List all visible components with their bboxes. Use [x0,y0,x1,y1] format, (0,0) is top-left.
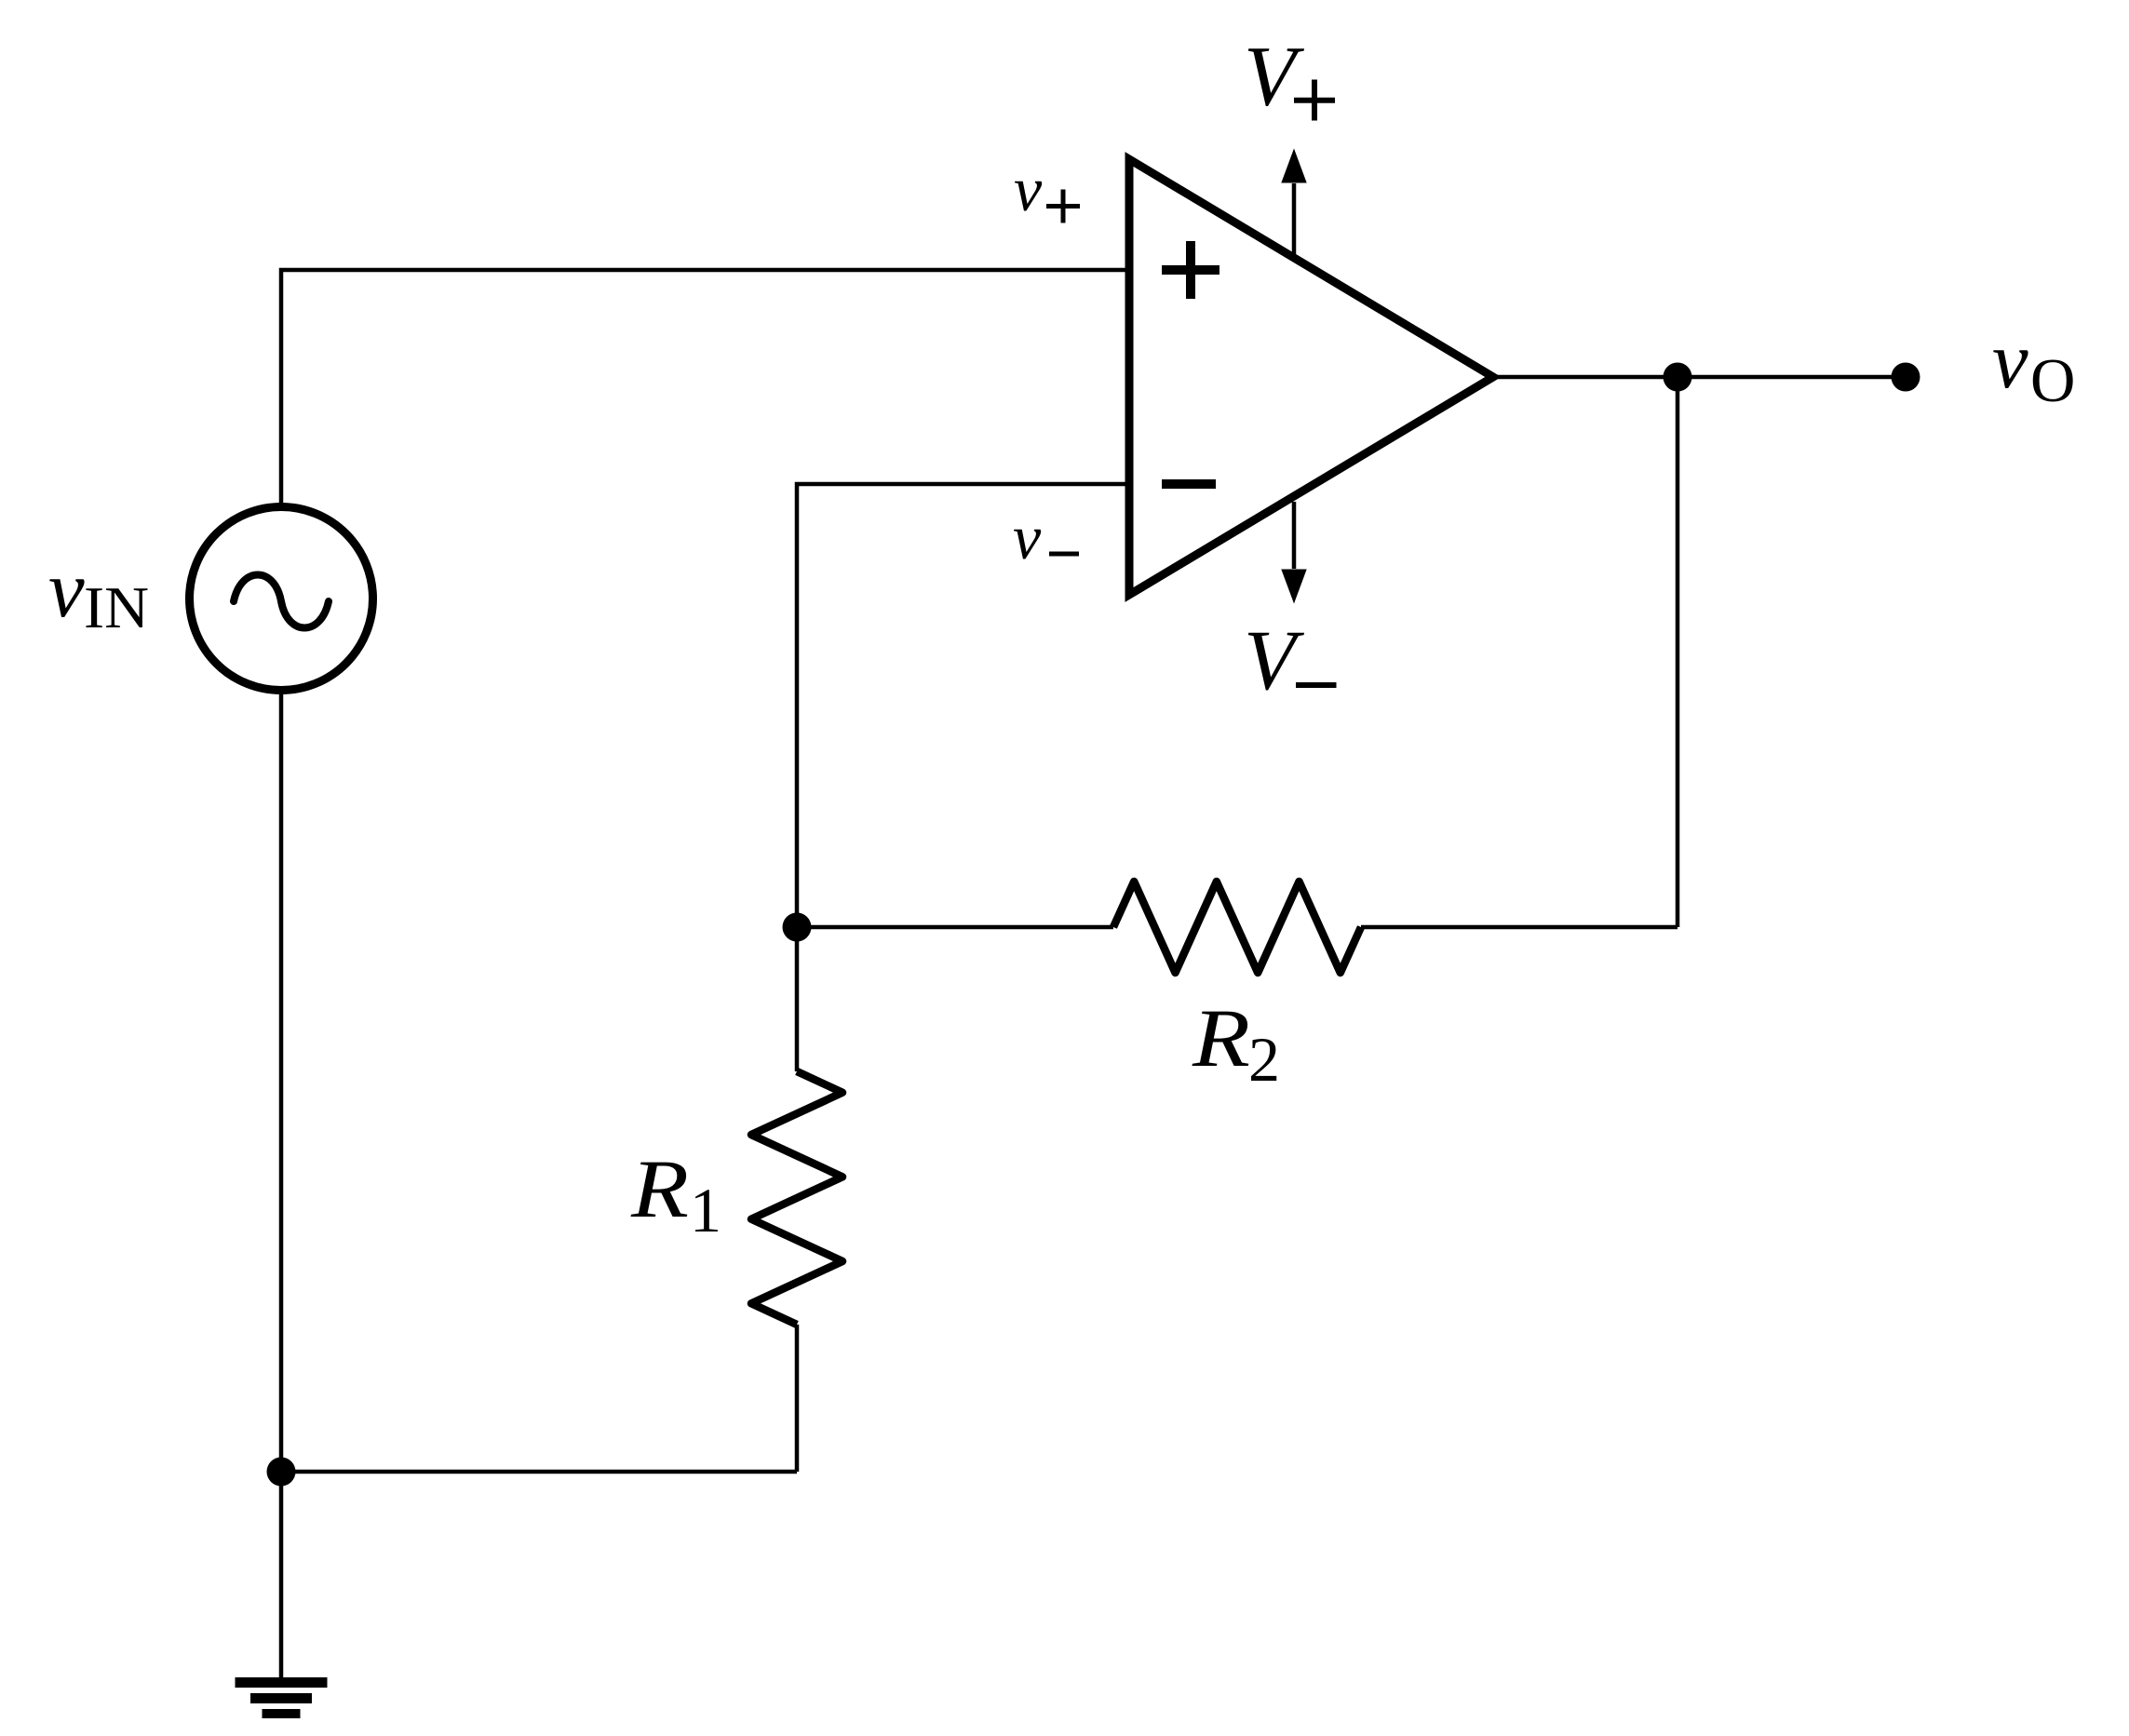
svg-text:v: v [1013,502,1042,572]
V+ supply arrow [1281,149,1306,255]
wire: bottom rail [281,1470,797,1474]
svg-text:R: R [630,1144,689,1235]
wire: inverting input left and down to feedback junction [797,484,1129,927]
node: output terminal [1892,363,1920,392]
svg-text:v: v [1992,315,2028,405]
label v+ [1014,154,1080,224]
op-amp U1 [1129,159,1493,595]
wire: R1 bottom lead down to bottom rail [795,1325,800,1472]
wire: ground stem [279,1472,284,1681]
label V- [1244,612,1337,707]
label R1 [630,1144,721,1245]
label vO [1992,315,2075,415]
node: feedback junction [783,913,812,942]
label v- [1013,502,1079,572]
wire: feedback drop from output node [1676,377,1680,927]
resistor R1 [751,1071,842,1325]
wire: op-amp output to terminal [1493,375,1906,380]
wire: feedback junction down to R1 top [795,927,800,1071]
wire: source bottom to ground junction [279,693,284,1472]
op-amp non-inverting input marker + [1162,241,1219,299]
wire: R2 right lead to feedback drop [1361,925,1678,930]
wire: source top to non-inverting input [281,270,1129,505]
svg-text:R: R [1192,993,1250,1084]
svg-text:v: v [48,544,85,634]
svg-text:O: O [2030,346,2075,415]
svg-text:IN: IN [84,574,149,640]
node: output junction [1664,363,1692,392]
svg-text:V: V [1244,612,1305,707]
node: source-ground junction [267,1458,296,1487]
V- supply arrow [1281,502,1306,604]
voltage source VIN [190,507,373,691]
label vIN [48,544,149,640]
svg-text:V: V [1244,29,1305,124]
op-amp inverting input marker - [1162,479,1216,489]
label V+ [1244,29,1335,124]
wire: junction to R2 left lead [797,925,1113,930]
resistor R2 [1113,881,1361,973]
svg-text:2: 2 [1248,1024,1280,1095]
label R2 [1192,993,1280,1095]
ground [236,1677,328,1718]
svg-text:1: 1 [690,1175,721,1245]
svg-text:v: v [1014,154,1043,224]
